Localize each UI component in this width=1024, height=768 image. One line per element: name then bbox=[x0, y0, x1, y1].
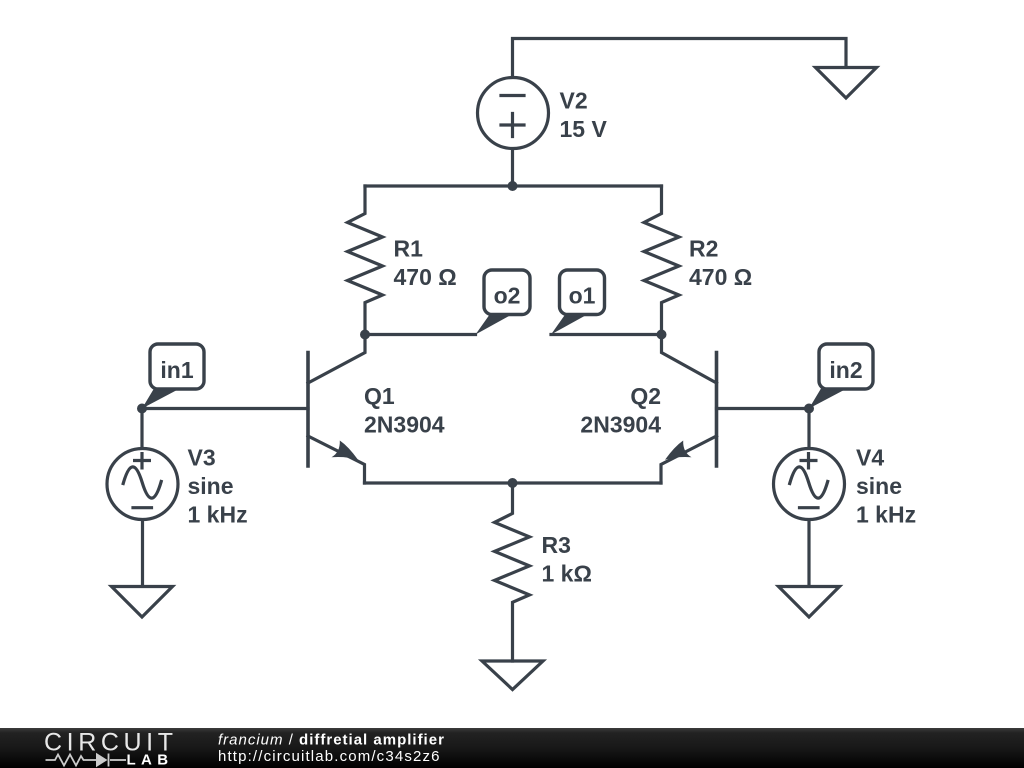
transistor Q2 bbox=[715, 353, 719, 467]
flag tail in2 bbox=[809, 389, 844, 409]
svg-text:o1: o1 bbox=[569, 283, 596, 309]
resistor R2 bbox=[644, 186, 679, 335]
svg-text:1 kHz: 1 kHz bbox=[856, 502, 916, 528]
ground (top right) bbox=[816, 68, 877, 99]
flag box o1 bbox=[560, 270, 605, 315]
footer bar bbox=[0, 728, 1024, 768]
svg-text:sine: sine bbox=[188, 473, 234, 499]
svg-text:V3: V3 bbox=[188, 445, 216, 471]
transistor Q1 bbox=[306, 353, 310, 467]
resistor R3 bbox=[495, 483, 530, 661]
wire: in1 to Q1 base bbox=[142, 407, 308, 410]
logo resistor-diode symbol bbox=[46, 754, 127, 767]
svg-text:o2: o2 bbox=[494, 283, 521, 309]
junction node: emitter rail / R3 bbox=[508, 478, 518, 488]
svg-text:V4: V4 bbox=[856, 445, 884, 471]
resistor R1 bbox=[348, 186, 383, 335]
svg-text:2N3904: 2N3904 bbox=[364, 411, 445, 437]
flag tail o1 bbox=[551, 314, 585, 335]
wire: Q2 base to in2 bbox=[717, 407, 810, 410]
svg-text:R2: R2 bbox=[689, 236, 718, 262]
voltage source V3 bbox=[140, 409, 143, 449]
svg-text:15 V: 15 V bbox=[560, 116, 608, 142]
flag box in2 bbox=[819, 344, 873, 389]
svg-text:http://circuitlab.com/c34s2z6: http://circuitlab.com/c34s2z6 bbox=[218, 748, 441, 765]
svg-text:2N3904: 2N3904 bbox=[580, 411, 661, 437]
junction node: in2 bbox=[804, 404, 814, 414]
wire: V2 top to ground rail bbox=[513, 39, 847, 77]
wire: collector rail bbox=[365, 184, 662, 187]
ground (below R3) bbox=[482, 661, 543, 690]
svg-text:in2: in2 bbox=[829, 357, 862, 383]
ground (below V3) bbox=[112, 587, 173, 618]
flag tail o2 bbox=[476, 314, 510, 335]
arrow Q2 emitter bbox=[665, 441, 692, 460]
svg-text:sine: sine bbox=[856, 473, 902, 499]
svg-text:Q1: Q1 bbox=[364, 383, 395, 409]
junction node: R2/o1/Q2 collector bbox=[657, 330, 667, 340]
svg-text:470 Ω: 470 Ω bbox=[689, 264, 752, 290]
wire: o2 net bbox=[365, 333, 476, 336]
wire: emitter rail bbox=[365, 481, 662, 484]
voltage source V2 bbox=[478, 78, 549, 149]
svg-text:1 kHz: 1 kHz bbox=[188, 502, 248, 528]
wire: o1 net bbox=[551, 333, 662, 336]
svg-text:V2: V2 bbox=[560, 88, 588, 114]
ground (below V4) bbox=[779, 587, 840, 618]
voltage source V4 bbox=[807, 409, 810, 449]
svg-text:francium / diffretial amplifie: francium / diffretial amplifier bbox=[218, 732, 445, 749]
svg-text:Q2: Q2 bbox=[630, 383, 661, 409]
svg-text:470 Ω: 470 Ω bbox=[394, 264, 457, 290]
svg-text:in1: in1 bbox=[160, 357, 193, 383]
junction node: R1/o2/Q1 collector bbox=[360, 330, 370, 340]
svg-text:LAB: LAB bbox=[127, 752, 174, 768]
flag tail in1 bbox=[142, 389, 177, 409]
flag box in1 bbox=[150, 344, 204, 389]
arrow Q1 emitter bbox=[332, 441, 359, 460]
svg-text:R3: R3 bbox=[542, 532, 571, 558]
wire: V2 bottom to collector rail bbox=[511, 150, 514, 187]
svg-text:R1: R1 bbox=[394, 236, 424, 262]
flag box o2 bbox=[484, 270, 530, 315]
svg-text:1 kΩ: 1 kΩ bbox=[542, 561, 592, 587]
junction node: V2/rail bbox=[508, 181, 518, 191]
junction node: in1 bbox=[137, 404, 147, 414]
